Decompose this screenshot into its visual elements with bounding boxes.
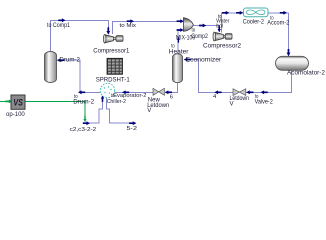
VS box op-100 <box>11 95 25 109</box>
arrow stream 5-2 <box>129 121 136 125</box>
arrow to Valve-2 <box>261 90 268 94</box>
arrow stream 6 into New Letdown <box>165 90 172 94</box>
spreadsheet SPRDSHT-1 icon <box>107 58 123 74</box>
wire Heater top to mixer inlet <box>178 30 183 56</box>
svg-text:Evaporator-2: Evaporator-2 <box>113 93 146 99</box>
vessel Drum-2 <box>45 52 57 83</box>
arrow into mixer top inlet <box>177 19 184 23</box>
svg-text:Drum-2: Drum-2 <box>59 57 80 64</box>
svg-text:Valve-2: Valve-2 <box>255 98 274 105</box>
svg-text:5-2: 5-2 <box>127 126 138 132</box>
arrow to Comp2 <box>199 24 206 28</box>
arrow into Compressor1 <box>106 27 110 34</box>
arrow up into recycle circle <box>101 95 104 101</box>
valve New Letdown <box>153 88 164 95</box>
cooler Cooler-2 <box>244 8 269 17</box>
arrow to Mix <box>127 19 134 23</box>
svg-text:6: 6 <box>170 94 173 100</box>
recycle circle (teal dashed) <box>100 83 114 97</box>
wire New Letdown to Drum-2 <box>57 60 153 92</box>
svg-text:Cooler-2: Cooler-2 <box>243 18 265 25</box>
vessel Heater/Economizer <box>173 54 183 83</box>
mixer MIX-100 <box>184 18 194 32</box>
arrow into Accumulator <box>287 49 291 56</box>
wire green feed through VS op-100 <box>0 101 85 121</box>
svg-text:Economizer: Economizer <box>186 57 222 64</box>
svg-text:SPRDSHT-1: SPRDSHT-1 <box>96 76 131 83</box>
svg-text:to Mix: to Mix <box>120 23 137 29</box>
arrow to Comp1 <box>58 18 65 22</box>
svg-text:c2,c3-2-2: c2,c3-2-2 <box>70 127 97 133</box>
wire to Comp1 (Drum-2 top to Compressor1 inlet) <box>50 20 108 53</box>
wire c2,c3-2-2 into recycle circle <box>83 96 103 123</box>
svg-text:Heater: Heater <box>169 48 189 55</box>
svg-text:Compressor1: Compressor1 <box>93 47 130 54</box>
arrow into Drum-2 <box>57 58 64 62</box>
wire Compressor2 outlet to Cooler-2 <box>222 13 244 33</box>
svg-text:Compressor2: Compressor2 <box>203 43 242 50</box>
arrow on Heater top stream <box>177 37 180 43</box>
wire Compressor1 outlet to Mix <box>113 21 184 34</box>
wire Letdown V to Economizer (stream 4) <box>184 60 233 93</box>
svg-text:Accom-2: Accom-2 <box>267 19 289 26</box>
wire Cooler-2 to Accumulator <box>268 13 289 56</box>
svg-text:Comp2: Comp2 <box>191 33 208 40</box>
arrow into Letdown V <box>246 90 253 94</box>
valve Letdown V <box>233 89 246 96</box>
svg-text:to Comp1: to Comp1 <box>47 22 71 29</box>
svg-text:Acomolator-2: Acomolator-2 <box>287 70 326 77</box>
svg-text:Chiller-2: Chiller-2 <box>107 99 126 105</box>
arrow into Cooler-2 <box>236 11 243 15</box>
arrow left of recycle circle <box>122 90 129 94</box>
arrow stream 4 <box>214 90 221 94</box>
wire mixer outlet to Comp2 <box>194 26 220 33</box>
wire 5-2 from recycle circle <box>107 98 136 124</box>
arrow into Economizer <box>184 58 191 62</box>
svg-text:bol: bol <box>216 23 223 29</box>
vessel Accumulator (horizontal capsule) <box>276 56 309 70</box>
wire Accumulator outlet to Letdown V <box>246 70 291 92</box>
arrow into Compressor2 <box>217 26 220 32</box>
compressor Compressor1 <box>104 35 113 43</box>
green arrow into VS <box>5 100 12 104</box>
svg-text:Drum-2: Drum-2 <box>73 98 94 105</box>
arrow into mixer bottom inlet <box>177 28 184 32</box>
arrow at to Drum-2 corner <box>78 90 85 94</box>
svg-text:VS: VS <box>13 97 23 108</box>
wire Heater bottom to New Letdown (stream 6) <box>165 81 178 92</box>
svg-text:op-100: op-100 <box>6 111 25 118</box>
green arrow down to c2 wire <box>83 116 86 122</box>
arrow on c2,c3-2-2 wire <box>83 121 90 125</box>
arrow Compressor2 out <box>222 11 229 15</box>
compressor Compressor2 <box>214 32 223 41</box>
arrow to Accom-2 <box>280 11 287 15</box>
